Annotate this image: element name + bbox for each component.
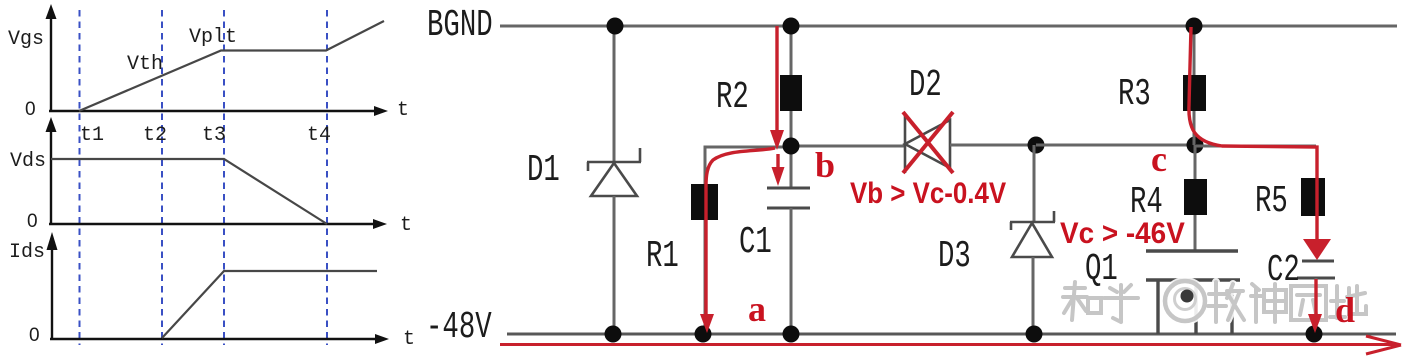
svg-text:t2: t2 [143,124,167,147]
resistor R1 [691,184,718,220]
node b junction [783,138,800,155]
svg-text:b: b [815,145,835,185]
wire node b to R1 corner [705,147,789,184]
svg-text:t3: t3 [202,124,226,147]
red current path from BGND through R3 to C2 [1189,27,1317,240]
red X over D2 [903,112,953,173]
dashed time marker t1 [79,10,81,345]
Vds y-axis [50,129,52,224]
svg-text:t: t [403,328,415,351]
svg-text:D3: D3 [938,234,971,278]
wire R4 top [1194,145,1197,179]
wire D1 bottom [613,196,616,334]
wire node c to R5 [1196,145,1316,148]
svg-text:0: 0 [29,325,40,346]
top rail BGND wire [500,25,1397,28]
resistor R3 [1183,75,1206,111]
capacitor C1 top plate [767,187,810,190]
svg-text:Vth: Vth [127,53,163,76]
wire R3 top [1193,26,1196,75]
red arrow into C1 [776,154,779,170]
resistor R5 [1301,178,1325,216]
Ids waveform [162,271,377,338]
junction dot top rail D1 [607,18,624,35]
svg-text:0: 0 [25,99,36,120]
dashed time marker t4 [326,10,328,345]
Ids y-axis [51,247,53,339]
junction dot bottom rail D3 [1026,326,1043,343]
Q1 middle stub [1194,280,1197,334]
wire R2 bottom [790,111,793,147]
wire R1 bottom [704,220,707,334]
zener diode D1 [587,148,641,196]
dashed time marker t2 [161,10,163,345]
wire C1 top [790,146,793,188]
capacitor C2 top plate [1302,260,1334,263]
dashed time marker t3 [223,10,225,345]
svg-text:t4: t4 [307,124,331,147]
svg-text:Vb > Vc-0.4V: Vb > Vc-0.4V [850,176,1006,209]
transistor Q1 channel bar [1146,278,1240,281]
junction dot bottom rail node d [1306,326,1323,343]
red arrow from C2 into node d [1314,279,1317,317]
svg-text:0: 0 [27,211,38,232]
svg-text:C1: C1 [739,220,772,264]
svg-text:R2: R2 [716,75,749,119]
svg-text:R1: R1 [646,234,679,278]
svg-text:a: a [748,289,766,329]
red return path along -48V rail [500,343,1399,346]
svg-text:Ids: Ids [9,241,45,264]
svg-text:BGND: BGND [427,3,493,47]
Q1 right stub [1230,280,1233,334]
svg-text:R3: R3 [1118,72,1151,116]
svg-text:t: t [400,214,412,237]
wire D3 bottom [1032,257,1035,334]
resistor R4 [1184,179,1207,215]
wire R3 bottom [1193,111,1196,145]
watermark zhihu [1063,277,1366,325]
Vds waveform [51,159,327,224]
svg-text:Vplt: Vplt [189,26,237,49]
Vds x-axis [49,223,375,225]
svg-text:t1: t1 [80,124,104,147]
Vgs waveform [79,21,384,111]
wire node b to D2 [791,145,905,148]
svg-text:d: d [1335,290,1355,330]
diode D2 [905,115,950,173]
wire D2 to D3 node [950,144,1036,147]
wire C2 bottom [1315,278,1318,334]
transistor Q1 gate bar [1146,249,1238,252]
red current path node b to node a [706,148,775,316]
svg-text:Vc > -46V: Vc > -46V [1060,217,1185,250]
svg-text:Vgs: Vgs [8,28,44,51]
svg-text:D1: D1 [527,148,560,192]
capacitor C1 bottom plate [767,207,810,210]
junction node above D3 [1028,137,1045,154]
zener diode D3 [1010,211,1055,257]
capacitor C2 bottom plate [1297,277,1335,280]
svg-text:Vds: Vds [10,150,46,173]
junction dot bottom rail node a [695,326,712,343]
svg-text:R5: R5 [1255,179,1288,223]
bottom rail -48V wire [507,333,1396,336]
Q1 left stub [1156,280,1159,334]
node c junction [1187,137,1204,154]
Vgs y-axis [50,16,52,111]
wire R4 bottom [1194,215,1197,251]
junction dot bottom rail C1 [783,326,800,343]
Ids x-axis [50,338,377,340]
svg-text:Q1: Q1 [1085,247,1118,291]
Vgs x-axis [49,110,376,112]
red current path from BGND into node b [775,26,778,133]
svg-text:D2: D2 [909,63,942,107]
wire D3 node to node c [1036,144,1196,147]
junction dot bottom rail D1 [605,326,622,343]
junction dot top rail R2 [783,18,800,35]
wire D3 top [1033,145,1036,222]
svg-text:t: t [397,99,409,122]
svg-text:c: c [1151,139,1167,179]
resistor R2 [780,75,802,111]
wire R2 top [790,26,793,75]
wire C1 bottom [790,208,793,334]
svg-text:-48V: -48V [426,305,492,349]
wire D1 top [613,26,616,162]
junction dot top rail R3 [1186,18,1203,35]
